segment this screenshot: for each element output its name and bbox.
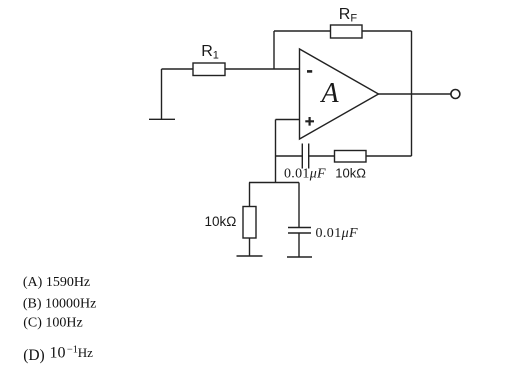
resistor R3 10k (243, 207, 256, 239)
ground (237, 255, 263, 257)
svg-text:0.01μF: 0.01μF (316, 226, 359, 241)
capacitor C2 (288, 228, 311, 234)
answer options (23, 275, 97, 364)
wire (276, 119, 300, 121)
ground (287, 256, 312, 258)
svg-text:R1: R1 (201, 43, 219, 61)
resistor R2 10k (335, 151, 367, 163)
wire (161, 69, 163, 119)
wire (249, 183, 251, 207)
ground (149, 118, 175, 120)
svg-text:Hz: Hz (78, 345, 93, 360)
wire (276, 155, 303, 157)
wire (273, 31, 275, 69)
wire (225, 68, 300, 70)
capacitor C1 (302, 144, 308, 169)
svg-text:10: 10 (50, 345, 66, 362)
pin - inverting input (307, 70, 312, 73)
wire (411, 31, 413, 156)
svg-text:(D): (D) (23, 347, 45, 364)
output terminal (451, 90, 460, 99)
svg-text:(B) 10000Hz: (B) 10000Hz (23, 296, 97, 311)
svg-text:RF: RF (339, 6, 358, 24)
resistor R1 (193, 63, 225, 76)
svg-text:−1: −1 (67, 345, 78, 356)
svg-text:(C) 100Hz: (C) 100Hz (23, 316, 82, 331)
op-amp U1 (300, 49, 379, 139)
svg-text:10kΩ: 10kΩ (205, 214, 237, 229)
wire (274, 30, 331, 32)
wire (298, 233, 300, 257)
wire (366, 155, 412, 157)
wire (275, 120, 277, 183)
wire (379, 93, 451, 95)
wire (309, 155, 335, 157)
svg-text:10kΩ: 10kΩ (335, 166, 366, 181)
pin + non-inverting input (305, 117, 314, 126)
wire (249, 238, 251, 256)
wire (162, 68, 194, 70)
wire (249, 182, 299, 184)
svg-text:A: A (319, 78, 339, 109)
wire (362, 30, 412, 32)
wire (298, 183, 300, 228)
svg-text:0.01μF: 0.01μF (284, 167, 326, 182)
resistor RF (331, 25, 363, 38)
svg-text:(A) 1590Hz: (A) 1590Hz (23, 275, 90, 290)
